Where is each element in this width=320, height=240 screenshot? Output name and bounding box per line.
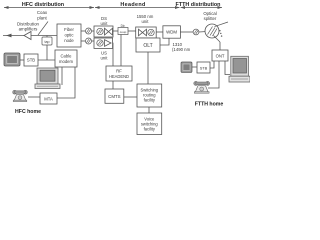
svg-text:MTA: MTA (44, 97, 53, 102)
svg-text:Headend: Headend (120, 2, 145, 8)
svg-text:tap: tap (45, 40, 50, 44)
svg-text:HFC home: HFC home (15, 109, 41, 115)
svg-text:node: node (64, 38, 74, 43)
svg-text:Cable: Cable (61, 54, 73, 59)
svg-text:HFC distribution: HFC distribution (22, 2, 64, 8)
svg-text:Coax: Coax (37, 10, 48, 15)
svg-text:CMTS: CMTS (108, 94, 121, 99)
svg-text:WDM: WDM (166, 30, 177, 35)
svg-text:FTTH distribution: FTTH distribution (176, 2, 221, 8)
svg-text:optic: optic (64, 33, 74, 38)
svg-text:facility: facility (144, 98, 156, 103)
svg-text:(1490 nm: (1490 nm (172, 47, 191, 52)
svg-text:facility: facility (144, 127, 156, 132)
svg-text:unit: unit (142, 19, 150, 24)
svg-text:OLT: OLT (143, 43, 152, 49)
svg-text:unit: unit (101, 55, 109, 60)
svg-text:FTTH home: FTTH home (195, 101, 224, 107)
svg-text:plant: plant (37, 16, 47, 21)
svg-text:RF: RF (116, 69, 122, 74)
svg-text:Fiber: Fiber (64, 27, 74, 32)
svg-text:Dir.: Dir. (121, 24, 126, 28)
svg-text:coup: coup (120, 30, 127, 34)
svg-text:STB: STB (200, 65, 208, 70)
svg-text:STB: STB (27, 58, 35, 63)
svg-text:modem: modem (59, 59, 73, 64)
svg-text:unit: unit (101, 21, 109, 26)
svg-text:amplifiers: amplifiers (19, 27, 39, 32)
svg-text:HEADEND: HEADEND (109, 74, 129, 79)
svg-text:splitter: splitter (204, 16, 217, 21)
svg-text:ONT: ONT (216, 53, 225, 58)
